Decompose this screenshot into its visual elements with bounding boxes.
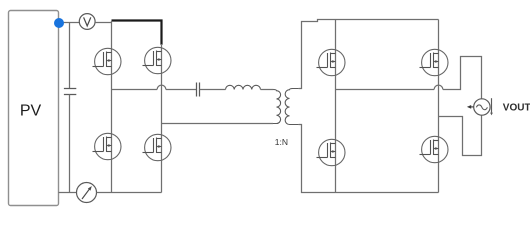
wire bridge1 midpoint B to transformer primary — [162, 123, 274, 125]
wire inductor to transformer — [261, 89, 274, 91]
bridge 1 left leg — [111, 21, 113, 193]
transformer T1 secondary winding — [285, 89, 298, 125]
voltage polarity bar — [491, 98, 493, 113]
wire ammeter to bridge 1 bottom rail — [97, 192, 162, 194]
wire capacitor C1 top branch — [69, 23, 71, 89]
bridge 2 left leg — [335, 20, 337, 193]
AC source VOUT — [474, 99, 490, 115]
transistor Q3 — [93, 133, 122, 159]
PV source box — [9, 11, 59, 206]
bridge 1 right leg — [161, 44, 163, 193]
transistor Q2 — [143, 47, 172, 73]
wire capacitor C1 bottom branch — [69, 95, 71, 193]
current direction arrow — [470, 106, 474, 108]
transistor Q8 — [420, 136, 449, 162]
wire secondary bottom to bridge 2 bottom rail — [299, 125, 439, 193]
transformer T1 primary winding — [273, 90, 281, 124]
transistor Q1 — [93, 48, 122, 74]
wire to AC source top — [443, 57, 482, 99]
svg-text:1:N: 1:N — [275, 137, 288, 147]
capacitor Cr plates — [197, 83, 200, 97]
inductor Lr — [226, 85, 261, 89]
transistor Q5 — [317, 49, 346, 75]
ammeter A1 — [77, 183, 97, 203]
wire — [166, 89, 197, 91]
svg-text:VOUT: VOUT — [503, 103, 530, 114]
transistor Q4 — [143, 134, 172, 160]
wire jump over right leg — [157, 85, 166, 89]
wire bridge2 midpoint D to AC source bottom — [439, 115, 482, 155]
wire voltmeter to bridge 1 — [95, 22, 111, 24]
svg-text:PV: PV — [20, 103, 42, 120]
transistor Q6 — [420, 49, 449, 75]
wire jump over bridge2 right leg — [434, 85, 443, 89]
bridge 2 right leg — [438, 20, 440, 193]
wire PV+ node to voltmeter — [59, 22, 80, 24]
node: blue junction dot — [54, 18, 64, 28]
wire secondary top to bridge 2 top rail — [299, 20, 439, 89]
bridge 1 DC bus (thick) — [112, 21, 162, 45]
wire PV- to ammeter — [59, 192, 77, 194]
wire bridge2 midpoint C to output — [336, 89, 435, 91]
capacitor C1 plates — [64, 89, 76, 95]
wire bridge1 midpoint A to resonant cap — [112, 89, 158, 91]
transistor Q7 — [317, 139, 346, 165]
wire — [200, 89, 226, 91]
voltmeter V1 — [79, 14, 95, 30]
